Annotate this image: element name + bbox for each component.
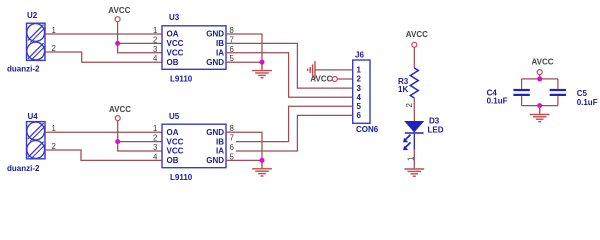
svg-text:4: 4 [357, 93, 362, 102]
capacitor C4 [513, 79, 529, 106]
capacitor C5 [550, 79, 566, 106]
svg-text:duanzi-2: duanzi-2 [7, 164, 40, 173]
svg-text:IA: IA [216, 147, 224, 156]
svg-text:6: 6 [357, 111, 362, 120]
svg-text:D3: D3 [429, 117, 440, 126]
wire AVCC to U5.2 [118, 141, 162, 143]
svg-text:VCC: VCC [167, 49, 184, 58]
svg-text:4: 4 [153, 54, 158, 63]
svg-text:OB: OB [167, 58, 179, 67]
svg-text:U4: U4 [28, 112, 39, 121]
connector U4 [27, 122, 46, 160]
svg-text:5: 5 [357, 102, 362, 111]
svg-text:IB: IB [216, 137, 224, 146]
svg-text:6: 6 [230, 143, 234, 152]
resistor R3 1K [410, 68, 418, 98]
svg-text:IB: IB [216, 39, 224, 48]
svg-text:VCC: VCC [167, 39, 184, 48]
wire bottom rail C4-C5 [522, 105, 558, 107]
wire U4.2 to U5.4 [45, 150, 162, 160]
wire D3 to ground [413, 150, 415, 169]
LED D3 [403, 121, 424, 150]
wire U3.7 (IB) to J6.3 [226, 43, 353, 88]
wire U4.1 to U5.1 [45, 131, 162, 133]
power AVCC (R3) [406, 30, 428, 68]
power AVCC (bottom left) [109, 105, 131, 142]
svg-text:OA: OA [167, 30, 179, 39]
svg-text:7: 7 [230, 134, 234, 143]
svg-text:GND: GND [206, 156, 224, 165]
ground (under U5) [252, 160, 272, 176]
op-amp/driver IC U5 (L9110) [162, 124, 226, 168]
wire U3.8 GND down [226, 34, 262, 62]
svg-text:CON6: CON6 [356, 125, 379, 134]
connector J6 (CON6) [353, 60, 370, 123]
junction dot bottom rail [537, 103, 542, 108]
junction dot U5 GND [260, 158, 265, 163]
svg-text:AVCC: AVCC [406, 30, 428, 39]
svg-text:1: 1 [357, 66, 362, 75]
svg-text:1K: 1K [398, 85, 408, 94]
svg-text:IA: IA [216, 49, 224, 58]
junction dot AVCC/U5 [115, 139, 120, 144]
wire U5.8 GND down [226, 132, 262, 160]
wire U3.5 GND [226, 61, 262, 63]
svg-text:VCC: VCC [167, 137, 184, 146]
wire U3.6 (IA) to J6.4 [226, 53, 353, 97]
svg-text:U3: U3 [169, 13, 180, 22]
junction dot U3 GND [260, 60, 265, 65]
wire AVCC to U3.3 [118, 43, 162, 52]
svg-text:GND: GND [206, 30, 224, 39]
svg-text:OB: OB [167, 156, 179, 165]
wire J6.5 to U5.7 (IB) [236, 106, 353, 141]
svg-text:AVCC: AVCC [109, 105, 131, 114]
svg-text:AVCC: AVCC [532, 58, 554, 67]
svg-text:1: 1 [153, 26, 157, 35]
wire U2.1 to U3.1 [45, 33, 162, 35]
wire U2.2 to U3.4 [45, 52, 162, 62]
wire ground to J6.1 [315, 69, 353, 71]
svg-text:0.1uF: 0.1uF [577, 98, 598, 107]
svg-text:0.1uF: 0.1uF [487, 96, 508, 105]
junction dot top rail [537, 76, 542, 81]
svg-text:OA: OA [167, 128, 179, 137]
connector U2 [27, 23, 46, 61]
wire J6.6 to U5.6 (IA) [236, 115, 353, 151]
wire AVCC to U3.2 [118, 42, 162, 44]
svg-text:2: 2 [405, 103, 414, 107]
power AVCC (top left) [108, 6, 130, 43]
svg-text:2: 2 [153, 134, 157, 143]
svg-text:2: 2 [357, 75, 362, 84]
wire U5.5 GND [226, 159, 262, 161]
svg-text:AVCC: AVCC [108, 6, 130, 15]
svg-text:2: 2 [153, 35, 157, 44]
wire R3 to D3 [413, 98, 415, 122]
power AVCC (C4/C5) [532, 58, 554, 79]
ground (rotated, J6 pin1) [308, 61, 315, 79]
svg-text:3: 3 [357, 84, 362, 93]
ground (under C4/C5) [530, 106, 550, 122]
svg-text:U5: U5 [169, 112, 180, 121]
svg-text:GND: GND [206, 128, 224, 137]
junction dot AVCC/U3 [115, 41, 120, 46]
svg-text:L9110: L9110 [170, 173, 193, 182]
ground (under D3) [404, 169, 424, 176]
wire AVCC to U5.3 [118, 142, 162, 151]
svg-text:3: 3 [153, 45, 157, 54]
svg-text:AVCC: AVCC [310, 74, 332, 83]
svg-text:J6: J6 [355, 50, 364, 59]
power AVCC (J6 pin2) [310, 74, 352, 83]
svg-text:4: 4 [153, 152, 158, 161]
svg-text:duanzi-2: duanzi-2 [7, 65, 40, 74]
svg-text:1: 1 [153, 124, 157, 133]
svg-text:VCC: VCC [167, 147, 184, 156]
svg-text:U2: U2 [27, 11, 38, 20]
ground (under U3) [252, 62, 272, 78]
svg-text:1: 1 [407, 157, 416, 161]
svg-text:GND: GND [206, 58, 224, 67]
svg-text:LED: LED [428, 125, 444, 134]
wire top rail C4-C5 [522, 78, 558, 80]
svg-text:L9110: L9110 [170, 75, 193, 84]
svg-text:3: 3 [153, 143, 157, 152]
op-amp/driver IC U3 (L9110) [162, 26, 226, 70]
